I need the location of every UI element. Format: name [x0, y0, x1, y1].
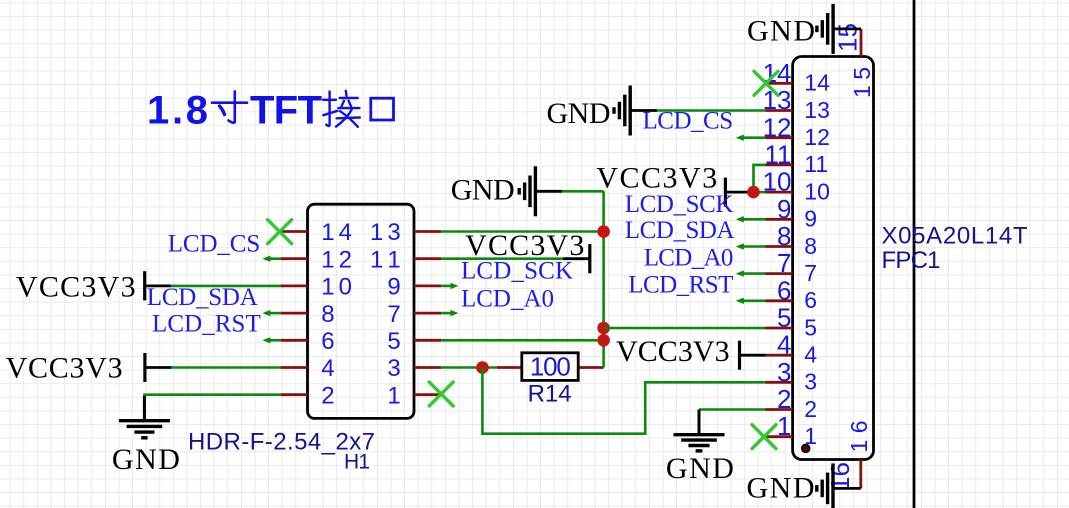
svg-text:LCD_CS: LCD_CS	[643, 108, 734, 135]
FPC1 pin16 stub (bottom)	[859, 460, 862, 489]
svg-text:1: 1	[804, 423, 817, 449]
wire stub H1 pin7 with arrow	[441, 312, 454, 315]
FPC1 inside pin names	[804, 70, 830, 449]
svg-text:FPC1: FPC1	[882, 247, 941, 274]
no-connect X on FPC pin14	[754, 71, 778, 95]
wire VCC to H1 pin10	[171, 285, 280, 288]
sheet border line	[913, 0, 916, 508]
svg-text:LCD_RST: LCD_RST	[152, 311, 261, 338]
resistor R14 body	[522, 353, 578, 381]
FPC1 outside pin numbers	[763, 58, 792, 441]
wire stub FPC pin12 with arrow + net label LCD_CS	[739, 136, 766, 139]
junction dot at R14 left	[476, 361, 489, 374]
no-connect X on H1 pin 14	[268, 220, 292, 244]
svg-text:GND: GND	[112, 443, 180, 476]
wire stub H1 pin9 with arrow	[441, 285, 454, 288]
svg-text:4: 4	[804, 342, 817, 368]
svg-text:13: 13	[804, 97, 830, 123]
wire GND to H1 pin2	[144, 395, 280, 420]
no-connect X on FPC pin1	[752, 425, 776, 449]
svg-text:16: 16	[825, 462, 855, 491]
FPC1 pin15 stub (top)	[860, 29, 863, 57]
wire GND to FPC pin2	[699, 408, 766, 411]
svg-text:X05A20L14T: X05A20L14T	[882, 222, 1028, 249]
junction dot FPC pin10	[747, 186, 760, 199]
no-connect X on H1 pin 1	[429, 382, 453, 406]
svg-text:5: 5	[387, 328, 400, 355]
wire stub FPC pin6 with arrow + net label LCD_RST	[739, 299, 766, 302]
svg-text:11: 11	[804, 151, 828, 177]
svg-text:2: 2	[321, 382, 334, 409]
svg-text:LCD_A0: LCD_A0	[644, 244, 734, 271]
svg-text:3: 3	[387, 355, 400, 382]
svg-text:2: 2	[804, 396, 817, 422]
svg-text:7: 7	[804, 260, 817, 286]
wire H1 pin5 to vertical net	[441, 339, 603, 342]
svg-text:LCD_A0: LCD_A0	[461, 285, 554, 312]
title hanzi 寸	[212, 91, 247, 122]
svg-text:LCD_SDA: LCD_SDA	[625, 217, 735, 244]
junction dots on vertical net	[597, 225, 610, 238]
wire stub FPC pin9 with arrow + net label LCD_SCK	[739, 218, 766, 221]
H1 left pin stubs	[280, 232, 307, 395]
wire H1 pin11 to VCC3V3 #3	[441, 257, 563, 260]
wire FPC pin11 corner down to pin10 junction	[754, 165, 766, 192]
ground GND #2 (FPC pin13)	[657, 109, 766, 112]
svg-text:15: 15	[833, 23, 863, 52]
svg-text:6: 6	[804, 287, 817, 313]
svg-text:14: 14	[804, 70, 830, 96]
wire stub FPC pin8 with arrow + net label LCD_SDA	[739, 245, 766, 248]
wire stubs H1 pins 12/8/6	[266, 259, 280, 341]
svg-text:12: 12	[804, 124, 830, 150]
svg-text:LCD_CS: LCD_CS	[168, 231, 261, 258]
svg-text:100: 100	[530, 351, 571, 381]
svg-text:6: 6	[321, 328, 334, 355]
svg-text:1.8: 1.8	[147, 89, 208, 133]
ground GND bottom (pin16)	[833, 487, 861, 490]
svg-text:3: 3	[804, 369, 817, 395]
svg-text:LCD_SDA: LCD_SDA	[147, 284, 258, 311]
connector FPC1 body	[793, 57, 874, 460]
svg-text:5: 5	[804, 314, 817, 340]
wire from junction down to FPC pin3	[482, 368, 765, 434]
svg-text:GND: GND	[747, 472, 815, 505]
FPC1 pin-1 marker dot	[802, 444, 810, 452]
wire VCC to H1 pin4	[171, 366, 280, 369]
svg-text:8: 8	[321, 301, 334, 328]
svg-text:GND: GND	[666, 452, 734, 485]
svg-text:GND: GND	[547, 97, 611, 130]
ground GND #1 (bottom left)	[119, 396, 170, 438]
wire vertical net to FPC pin5	[604, 327, 766, 330]
H1 right pin stubs	[414, 232, 441, 395]
svg-text:9: 9	[804, 206, 817, 232]
svg-text:TFT: TFT	[250, 89, 322, 133]
svg-text:8: 8	[804, 233, 817, 259]
ground GND #4 (bottom middle)	[674, 410, 725, 451]
FPC1 left pin stubs	[766, 83, 793, 436]
svg-text:GND: GND	[451, 174, 515, 207]
svg-text:VCC3V3: VCC3V3	[16, 270, 136, 303]
resistor R14 pins	[497, 366, 522, 369]
svg-text:10: 10	[804, 178, 830, 204]
svg-text:1: 1	[387, 382, 400, 409]
ground GND top (pin15)	[833, 27, 861, 30]
svg-text:9: 9	[387, 274, 400, 301]
wire H1 pin3 to junction	[441, 366, 497, 369]
wire stub FPC pin7 with arrow + net label LCD_A0	[739, 272, 766, 275]
svg-text:7: 7	[387, 301, 400, 328]
ground GND #3 (middle)	[562, 190, 603, 193]
svg-text:LCD_SCK: LCD_SCK	[461, 258, 573, 285]
connector H1 body	[308, 204, 415, 418]
svg-text:R14: R14	[528, 380, 572, 407]
wire H1 pin13 to vertical net	[441, 230, 603, 233]
title 1.8寸TFT接口	[147, 89, 322, 133]
svg-text:VCC3V3: VCC3V3	[616, 335, 730, 368]
vertical net wire (GND net right of H1)	[602, 191, 605, 367]
svg-text:VCC3V3: VCC3V3	[596, 161, 717, 194]
title hanzi 口	[371, 98, 394, 120]
title hanzi 接	[323, 91, 360, 127]
svg-text:4: 4	[321, 355, 334, 382]
svg-text:H1: H1	[344, 450, 370, 473]
arrowheads H1 pins 12/8/6	[262, 256, 270, 344]
svg-text:VCC3V3: VCC3V3	[6, 351, 123, 384]
svg-text:LCD_SCK: LCD_SCK	[625, 191, 734, 218]
H1 pin numbers right column	[370, 219, 401, 409]
svg-text:GND: GND	[747, 15, 815, 48]
svg-text:LCD_RST: LCD_RST	[628, 271, 733, 298]
H1 pin numbers left column	[321, 219, 352, 409]
